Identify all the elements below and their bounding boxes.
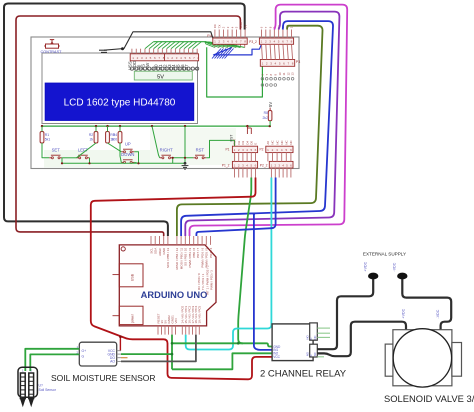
svg-text:13: 13 [291, 72, 295, 76]
wire DOWN right to gnd [134, 161, 138, 164]
svg-text:CONTRAST: CONTRAST [41, 50, 63, 54]
svg-text:NC: NC [313, 352, 317, 356]
wire green gnd branch to relay [172, 342, 243, 344]
svg-text:EXTERNAL SUPPLY: EXTERNAL SUPPLY [363, 252, 406, 257]
Arduino bottom pin stubs [158, 326, 199, 335]
svg-text:8: 8 [198, 56, 200, 60]
LCD header pin numbers [132, 56, 199, 60]
svg-text:P1_2: P1_2 [222, 164, 230, 168]
wire cyan P2_2 to Arduino A1 [186, 178, 272, 350]
wire RIGHT right to gnd [172, 158, 174, 164]
Arduino power connector box [119, 306, 143, 324]
relay K1 contact stubs [317, 327, 330, 329]
header P4 pin labels [213, 22, 247, 28]
wire green Arduino GND1 down [171, 335, 173, 370]
P2_2 bottom pin stubs [271, 168, 291, 178]
header P3_2 pin labels [260, 25, 294, 29]
svg-text:R4: R4 [113, 133, 117, 137]
resistor R4 300 [118, 132, 122, 144]
pushbutton UP [121, 151, 123, 153]
svg-text:RX / PD0 / 0: RX / PD0 / 0 [197, 273, 201, 290]
svg-text:NC: NC [313, 335, 317, 339]
svg-text:2 CHANNEL RELAY: 2 CHANNEL RELAY [260, 369, 347, 380]
wire 5V maroon frame P4-pin7 to Arduino GND pin [16, 16, 240, 236]
green data bus wires LCD to header P4 [145, 42, 245, 59]
stub rail to P1 pins [246, 126, 248, 134]
pin header P2_2 [269, 161, 293, 168]
svg-text:5V: 5V [157, 74, 164, 80]
wire purple P3_2 to Arduino D6 [185, 12, 339, 236]
pin header P2 [266, 146, 293, 152]
svg-text:1: 1 [22, 369, 24, 373]
P2 to P2_2 pin joins [268, 153, 291, 162]
pushbutton RIGHT [160, 157, 162, 159]
LCD backlight jumper marks [99, 49, 107, 51]
svg-text:SOLENOID VALVE 3/4": SOLENOID VALVE 3/4" [384, 393, 474, 404]
pin header P4 [213, 38, 247, 44]
svg-text:P1: P1 [225, 148, 229, 152]
junction dot sensor gnd [171, 353, 174, 356]
svg-text:G+: G+ [82, 349, 87, 353]
stub orange sensor DO [121, 357, 128, 359]
resistor R0 1k [106, 132, 110, 144]
wire green 5V rail [42, 125, 270, 127]
svg-text:SET: SET [52, 148, 61, 153]
external supply terminal -VDC [397, 273, 407, 280]
Arduino bottom pin labels [156, 305, 201, 323]
wire blue2 P2_2 to Arduino D0 [196, 178, 275, 237]
svg-text:P4: P4 [207, 34, 211, 38]
svg-text:RST: RST [196, 148, 205, 153]
wire blue branch to relay IN1 [254, 214, 272, 350]
svg-text:R1: R1 [45, 133, 49, 137]
svg-text:VIN: VIN [174, 318, 178, 323]
svg-text:TX / PD1 / 1: TX / PD1 / 1 [201, 273, 205, 290]
svg-text:LCD 1602 type HD44780: LCD 1602 type HD44780 [64, 97, 176, 108]
wire green sensor GND [121, 353, 172, 355]
pushbutton RST [193, 157, 195, 159]
svg-text:+VDC: +VDC [364, 261, 368, 271]
svg-text:G: G [82, 354, 85, 358]
header P3_2 top pin stubs [262, 30, 292, 39]
svg-text:5k1: 5k1 [45, 138, 51, 142]
svg-text:2: 2 [30, 369, 32, 373]
wire blue P3_2 to Arduino D7 [181, 21, 333, 236]
wire R4 to DOWN [120, 143, 121, 162]
svg-text:E: E [254, 143, 258, 145]
pin header P3 [260, 60, 294, 67]
svg-text:SCK / PB5 / 13: SCK / PB5 / 13 [166, 247, 170, 268]
header P3 bottom labels [261, 72, 295, 76]
svg-text:NC: NC [285, 140, 289, 144]
wire gray sensor AO to Arduino A3 [121, 335, 196, 362]
wire black relay C2 to valve + [317, 322, 406, 357]
junction dot gnd branch [171, 342, 174, 345]
header P3 socket circles row1 [261, 78, 294, 81]
wire magenta P3_2 to Arduino D5 [190, 5, 348, 236]
svg-text:RIGHT: RIGHT [160, 148, 173, 153]
svg-text:Soil Sensor: Soil Sensor [39, 388, 57, 392]
potentiometer RV1 CONTRAST [44, 40, 60, 49]
svg-text:P2: P2 [259, 148, 263, 152]
svg-text:-VDC: -VDC [436, 309, 440, 318]
resistor R8 2k2 [268, 111, 272, 121]
P1_2 bottom pin stubs [235, 168, 256, 178]
svg-text:P3_2: P3_2 [249, 40, 257, 44]
svg-text:ARDUINO UNO: ARDUINO UNO [141, 290, 208, 300]
ground symbol [184, 162, 187, 165]
svg-text:P2_2: P2_2 [260, 164, 268, 168]
pushbutton LEFT [77, 157, 79, 159]
junction dots button net [88, 162, 90, 164]
P1 pin labels [233, 139, 258, 145]
svg-text:300: 300 [112, 138, 118, 142]
wire green P1_2 to relay GND [238, 178, 271, 347]
svg-text:5V: 5V [243, 25, 247, 29]
wire UP right to gnd [134, 152, 138, 164]
svg-text:P3: P3 [296, 60, 300, 64]
svg-text:NC: NC [289, 140, 293, 144]
Arduino top pin labels [149, 247, 213, 270]
svg-text:DOWN: DOWN [121, 152, 134, 157]
wire SET to LEFT [62, 157, 76, 159]
2 channel relay body [272, 324, 313, 361]
svg-text:NC: NC [275, 140, 279, 144]
svg-text:INT 1 / PWM / PD2 / 2: INT 1 / PWM / PD2 / 2 [205, 265, 209, 295]
LCD module outline [42, 53, 198, 124]
wire green P4 area to P3 bottom [207, 47, 263, 97]
svg-text:R2: R2 [89, 133, 93, 137]
svg-text:RST: RST [230, 135, 234, 142]
wire black +VDC supply to relay NO2 [317, 278, 373, 349]
wire red to sensor VCC [119, 337, 121, 351]
wire RST to header P1 [206, 140, 234, 157]
P1 to P1_2 pin joins [235, 153, 256, 162]
resistor R2 2k [94, 132, 98, 144]
LCD pin header block [130, 54, 198, 61]
svg-text:NC: NC [280, 140, 284, 144]
Arduino top pin stubs [151, 236, 211, 245]
LCD header top pin stubs [132, 49, 197, 54]
LCD-keypad module boundary box [31, 37, 299, 169]
svg-text:power: power [131, 313, 135, 323]
svg-text:2k2: 2k2 [263, 116, 269, 120]
Arduino UNO board outline [119, 245, 216, 326]
pale net highlight under buttons [44, 150, 186, 168]
soil moisture sensor board [79, 342, 116, 366]
wire black -VDC supply to valve [402, 278, 451, 330]
svg-text:AO: AO [110, 360, 115, 364]
svg-text:UP: UP [125, 142, 131, 147]
svg-text:A0: A0 [266, 141, 270, 145]
svg-text:PWM / PD3 / 3: PWM / PD3 / 3 [210, 270, 214, 290]
resistor R1 5k1 [40, 132, 44, 144]
wire blue EN to P3_2 [214, 44, 262, 55]
svg-text:U?: U? [39, 384, 43, 388]
Arduino right side pin labels [197, 265, 214, 295]
wire black LCD-K bus to P4 [104, 32, 215, 50]
svg-text:5V: 5V [268, 102, 273, 107]
header P4 top pin stubs [215, 30, 245, 39]
P2 pin labels [266, 140, 293, 144]
pushbutton SET [49, 157, 51, 159]
header P3 socket circles row2 [261, 84, 277, 87]
Arduino fiducial circle [121, 247, 125, 251]
net label 5V box [134, 71, 192, 80]
wire green lower gnd run [172, 353, 272, 369]
svg-text:-VDC: -VDC [393, 262, 397, 271]
svg-text:SOIL MOISTURE SENSOR: SOIL MOISTURE SENSOR [51, 373, 156, 383]
external supply terminal +VDC [368, 273, 378, 280]
wire green probe 1 [25, 349, 79, 371]
wire R0 to UP [108, 143, 122, 152]
wire rail drop at 185 [184, 126, 186, 163]
wire dark-green P3_2 to Arduino D8 [177, 26, 323, 236]
wire ground bus [62, 162, 185, 164]
pin header P1 [232, 146, 257, 152]
svg-text:VCC: VCC [273, 355, 280, 359]
LCD pin name labels [128, 61, 198, 70]
wire R1 to SET [42, 143, 49, 158]
pin header P1_2 [232, 161, 257, 168]
wire red VCC net [91, 178, 272, 380]
LCD 1602 blue screen [45, 83, 194, 120]
Arduino USB connector box [119, 264, 143, 287]
wire green probe 2 [30, 354, 79, 371]
wire LEFT right down [89, 158, 91, 164]
svg-text:PD4 / 4: PD4 / 4 [209, 247, 213, 257]
wire GND black frame P4-pin8 to Arduino pin13 [4, 4, 245, 237]
LCD socket circles [130, 67, 198, 70]
wire RIGHT to RST [173, 157, 194, 159]
header P3_2 to P3 pin joins [262, 44, 293, 59]
svg-text:2k: 2k [90, 138, 94, 142]
pushbutton DOWN [121, 161, 123, 163]
wire R2 to LEFT [77, 143, 97, 158]
wire rail to RIGHT [152, 126, 160, 158]
svg-text:+VDC: +VDC [402, 308, 406, 318]
soil probe [18, 367, 37, 397]
svg-text:R8: R8 [264, 111, 268, 115]
solenoid valve body [393, 330, 452, 386]
svg-text:USB: USB [131, 273, 135, 281]
svg-text:19 / A5 / PC5: 19 / A5 / PC5 [198, 305, 202, 323]
junction dots on 5V rail [41, 125, 43, 127]
pin header P3_2 [259, 38, 293, 44]
svg-text:NC: NC [271, 140, 275, 144]
